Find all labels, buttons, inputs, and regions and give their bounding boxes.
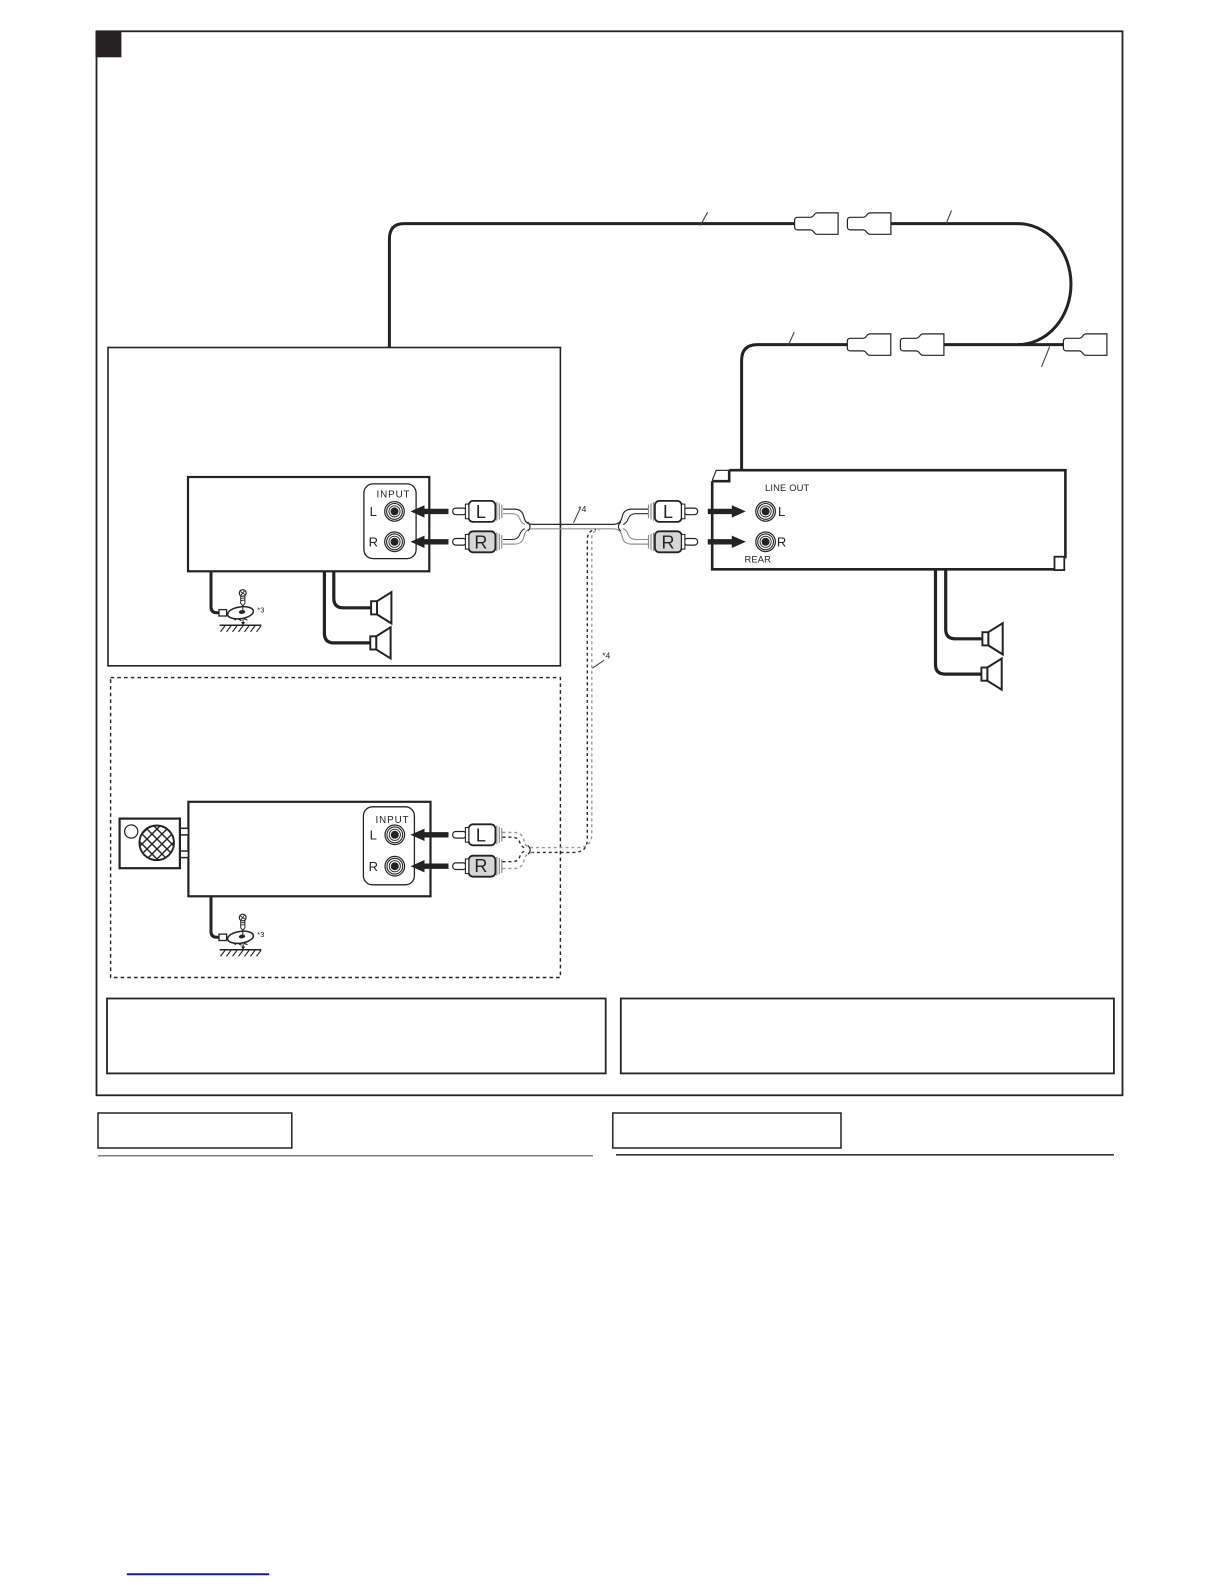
ground: ring terminal with screw to car body (subwoofer amp): [219, 914, 264, 956]
cable L lower inner outline: [503, 514, 525, 525]
RCA plug L (white) into amplifier: [453, 501, 502, 522]
jack LINE OUT R: [756, 532, 776, 552]
connector: quick-disconnect on lower lead (right half): [900, 334, 944, 355]
cable bottom outline: [503, 529, 648, 544]
RCA plug R (gray) into subwoofer amp: [453, 856, 502, 877]
footnote rule right: [616, 1154, 1114, 1156]
svg-text:R: R: [369, 534, 378, 549]
dashed gray: R bottom outline: [503, 852, 534, 868]
cable R upper inner outline: [503, 529, 525, 540]
arrow into subwoofer INPUT R: [411, 860, 449, 872]
dashed gray outline: L top to vertical right: [503, 530, 600, 848]
cable right-side R inner outline: [623, 529, 648, 540]
svg-text:L: L: [370, 504, 377, 519]
svg-text:*4: *4: [602, 651, 610, 661]
RCA plug R (gray) toward head unit: [649, 531, 698, 552]
wire: lower lead segment to right-end connector: [944, 343, 1064, 346]
jack INPUT R (subwoofer amp): [385, 856, 405, 876]
arrow into LINE OUT R: [708, 536, 746, 548]
arrow into INPUT L: [411, 505, 449, 517]
subwoofer connector tab upper: [180, 828, 189, 835]
svg-text:REAR: REAR: [745, 554, 772, 565]
arrow into INPUT R: [411, 536, 449, 548]
subwoofer woofer grille circle: [110, 796, 204, 881]
svg-text:LINE OUT: LINE OUT: [765, 482, 810, 493]
svg-text:L: L: [663, 502, 673, 522]
jack LINE OUT L: [756, 502, 776, 522]
connector: quick-disconnect at right wire end: [1063, 334, 1107, 355]
svg-text:R: R: [369, 859, 378, 874]
caption box left: [98, 1113, 292, 1148]
svg-text:R: R: [474, 532, 487, 552]
box: head unit (car audio) outline: [729, 470, 1065, 558]
box: subwoofer speaker: [120, 819, 180, 869]
brace at right cable split: [618, 522, 620, 531]
dashed black: R top inner: [503, 851, 525, 862]
speaker wire lower: [324, 571, 370, 643]
box: subwoofer power amplifier unit: [188, 802, 430, 897]
svg-text:R: R: [777, 534, 786, 549]
brace at left cable merge: [528, 522, 530, 531]
wire: power lead from hideaway-unit box top up and right: [389, 224, 794, 348]
box: amplifier section (solid outline): [108, 348, 560, 666]
speaker front lower: [370, 627, 390, 658]
head unit speaker wire upper: [946, 571, 983, 639]
RCA plug L (white) toward head unit: [649, 501, 698, 522]
svg-text:L: L: [476, 825, 486, 845]
INPUT jack panel (subwoofer amp): [363, 807, 414, 885]
RCA plug R (gray) into amplifier: [453, 531, 502, 552]
section tab black square: [96, 31, 122, 58]
leader slash on lower-left lead: [789, 332, 795, 345]
svg-text:R: R: [662, 532, 675, 552]
cable right-side L inner outline: [623, 514, 648, 525]
svg-text:L: L: [370, 827, 377, 842]
footnote *4 leader (dashed cable): [592, 660, 604, 668]
outer page frame: [97, 31, 1123, 1095]
speaker rear upper: [982, 623, 1002, 654]
connector: quick-disconnect male mating half: [847, 213, 891, 234]
speaker wire upper: [334, 571, 371, 608]
svg-text:L: L: [778, 504, 785, 519]
wire: lower lead from head-unit top, corner, to connector pair: [742, 345, 848, 470]
leader slash right of top connector pair: [946, 211, 952, 225]
svg-text:INPUT: INPUT: [377, 489, 411, 500]
ground wire from subwoofer amplifier: [211, 896, 220, 938]
footnote *4 leader: [574, 509, 581, 523]
leader slash near right-end connector: [1042, 347, 1050, 367]
svg-text:L: L: [476, 502, 486, 522]
head unit speaker wire lower: [936, 571, 982, 675]
dashed black: L bottom inner: [503, 837, 525, 848]
footnote rule left: [98, 1155, 593, 1157]
speaker rear lower: [981, 659, 1001, 690]
connector: quick-disconnect female on power lead: [795, 213, 839, 234]
note box right: [621, 999, 1114, 1074]
head unit corner bevel: [712, 470, 729, 480]
brace at dashed cable merge: [528, 845, 530, 854]
arrow into subwoofer INPUT L: [411, 829, 449, 841]
arrow into LINE OUT L: [708, 505, 746, 517]
dashed black outline: merged bottom to vertical left: [531, 529, 596, 852]
cable top outline: [503, 509, 648, 524]
note box left: [107, 999, 606, 1074]
svg-text:INPUT: INPUT: [376, 815, 410, 826]
subwoofer connector tab lower: [180, 851, 189, 858]
box: subwoofer amplifier section (dashed outline): [111, 678, 561, 978]
speaker front upper: [371, 592, 391, 623]
subwoofer small port circle: [125, 825, 138, 838]
ground: ring terminal with screw to car body: [219, 590, 264, 632]
box: power amplifier unit: [188, 477, 429, 571]
svg-text:*4: *4: [578, 504, 586, 514]
head unit bottom-right notch: [1055, 557, 1065, 570]
ground wire from amplifier: [211, 571, 220, 613]
RCA plug L (white) into subwoofer amp: [453, 824, 502, 845]
jack INPUT L: [385, 502, 405, 522]
leader slash on power lead: [700, 212, 707, 225]
wire: from male connector right, U-turn down: [891, 224, 1071, 345]
svg-text:R: R: [474, 856, 487, 876]
connector: quick-disconnect on lower lead (left half): [847, 334, 891, 355]
jack INPUT L (subwoofer amp): [385, 825, 405, 845]
blue link underline bottom left: [127, 1573, 269, 1575]
jack INPUT R: [385, 532, 405, 552]
caption box right: [613, 1113, 841, 1148]
INPUT jack panel (rounded): [364, 484, 416, 559]
